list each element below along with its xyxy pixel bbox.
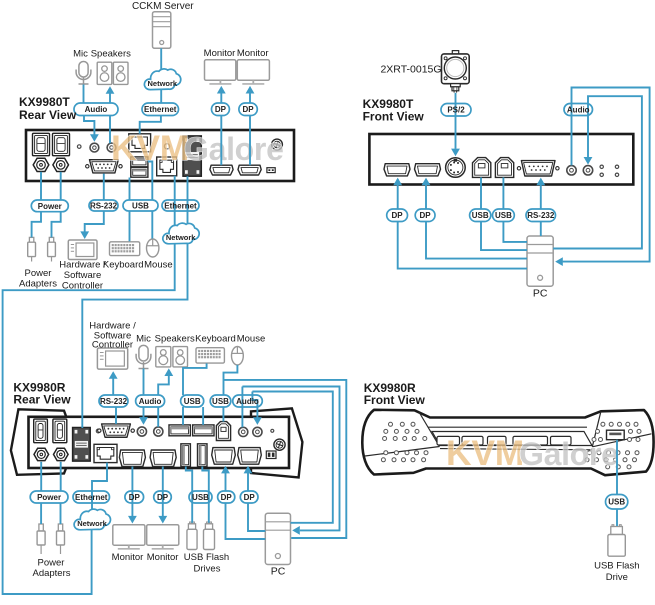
svg-text:KVMGalore: KVMGalore (446, 433, 619, 473)
svg-text:Adapters: Adapters (19, 278, 57, 289)
svg-text:Power: Power (38, 202, 62, 211)
svg-text:Mic: Mic (73, 48, 88, 59)
svg-text:PS/2: PS/2 (447, 106, 465, 115)
svg-text:USB: USB (184, 397, 201, 406)
svg-text:Monitor: Monitor (112, 552, 144, 563)
svg-text:KVMGalore: KVMGalore (111, 128, 284, 168)
svg-text:DP: DP (215, 105, 227, 114)
svg-text:USB: USB (212, 397, 229, 406)
svg-text:Software: Software (64, 270, 102, 281)
svg-text:Front View: Front View (363, 109, 425, 123)
svg-text:USB Flash: USB Flash (594, 560, 639, 571)
svg-text:Ethernet: Ethernet (75, 493, 108, 502)
svg-text:Audio: Audio (85, 105, 108, 114)
svg-text:Audio: Audio (567, 105, 590, 114)
svg-text:Mouse: Mouse (144, 259, 173, 270)
svg-text:Ethernet: Ethernet (164, 201, 197, 210)
svg-text:USB: USB (472, 211, 489, 220)
svg-text:USB Flash: USB Flash (184, 552, 229, 563)
svg-text:DP: DP (420, 211, 432, 220)
svg-text:USB: USB (608, 498, 625, 507)
svg-text:DP: DP (129, 493, 141, 502)
svg-text:CCKM Server: CCKM Server (132, 1, 194, 12)
svg-text:Power: Power (38, 558, 65, 569)
svg-text:Mouse: Mouse (237, 334, 266, 345)
svg-text:Front View: Front View (364, 393, 426, 407)
svg-text:Power: Power (37, 493, 61, 502)
svg-text:Network: Network (148, 79, 178, 88)
svg-text:Hardware /: Hardware / (59, 259, 106, 270)
svg-text:Ethernet: Ethernet (144, 105, 177, 114)
svg-text:DP: DP (244, 493, 256, 502)
svg-text:RS-232: RS-232 (527, 211, 555, 220)
svg-text:DP: DP (392, 211, 404, 220)
svg-text:RS-232: RS-232 (90, 201, 118, 210)
svg-text:RS-232: RS-232 (100, 397, 128, 406)
svg-text:Monitor: Monitor (237, 48, 269, 59)
svg-text:DP: DP (221, 493, 233, 502)
svg-text:PC: PC (271, 565, 286, 577)
svg-text:Speakers: Speakers (155, 334, 195, 345)
svg-text:Speakers: Speakers (91, 48, 131, 59)
svg-text:PC: PC (533, 288, 548, 300)
svg-text:Mic: Mic (136, 334, 151, 345)
svg-text:USB: USB (192, 493, 209, 502)
svg-text:Monitor: Monitor (147, 552, 179, 563)
svg-text:Power: Power (25, 268, 52, 279)
svg-text:Controller: Controller (62, 280, 103, 291)
svg-text:Audio: Audio (236, 397, 259, 406)
svg-text:Network: Network (166, 233, 196, 242)
svg-text:Adapters: Adapters (32, 568, 70, 579)
svg-text:DP: DP (157, 493, 169, 502)
svg-text:Audio: Audio (139, 397, 162, 406)
svg-text:Rear View: Rear View (19, 108, 77, 122)
svg-text:Controller: Controller (92, 339, 133, 350)
svg-text:Keyboard: Keyboard (195, 334, 236, 345)
svg-text:USB: USB (495, 211, 512, 220)
svg-text:Rear View: Rear View (13, 393, 71, 407)
svg-text:USB: USB (132, 201, 149, 210)
svg-text:Monitor: Monitor (204, 48, 236, 59)
svg-text:DP: DP (243, 105, 255, 114)
svg-text:Drive: Drive (606, 572, 628, 583)
svg-text:2XRT-0015G: 2XRT-0015G (380, 63, 441, 75)
svg-text:Network: Network (77, 519, 107, 528)
svg-text:Keyboard: Keyboard (103, 259, 144, 270)
svg-text:Drives: Drives (194, 563, 221, 574)
